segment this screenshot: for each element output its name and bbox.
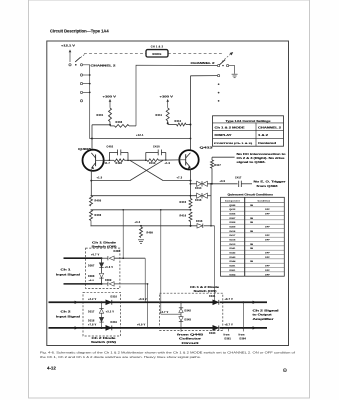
svg-text:No E. O. Trigger: No E. O. Trigger [254, 181, 286, 184]
svg-text:D343: D343 [185, 318, 192, 321]
svg-text:CHANNEL 2: CHANNEL 2 [91, 63, 117, 67]
svg-text:D416: D416 [196, 220, 203, 223]
svg-text:+8.7 V: +8.7 V [225, 325, 234, 327]
svg-text:D413: D413 [229, 243, 236, 246]
svg-text:from Q493: from Q493 [257, 185, 279, 188]
svg-text:D361: D361 [229, 270, 236, 272]
svg-text:R405: R405 [95, 200, 102, 203]
svg-text:D307: D307 [229, 218, 236, 220]
svg-text:Ch 2: Ch 2 [61, 311, 72, 314]
svg-text:+3.2 V: +3.2 V [106, 311, 115, 313]
svg-text:D309: D309 [105, 280, 112, 282]
svg-text:Type 1A4 Control Settings: Type 1A4 Control Settings [226, 120, 272, 123]
svg-text:D306: D306 [229, 214, 236, 216]
svg-text:+0.9 V: +0.9 V [137, 325, 146, 327]
svg-text:D344: D344 [229, 260, 236, 263]
svg-text:Ch 2 Diode: Ch 2 Diode [92, 337, 117, 340]
svg-text:R408: R408 [116, 121, 123, 124]
svg-text:D318: D318 [88, 320, 95, 322]
svg-text:Condition: Condition [258, 199, 271, 202]
svg-text:+8.7 V: +8.7 V [225, 299, 234, 301]
svg-text:R413: R413 [149, 162, 156, 165]
svg-text:+0.6: +0.6 [89, 280, 95, 282]
svg-text:D417: D417 [229, 234, 236, 237]
svg-text:+4.7 V: +4.7 V [160, 311, 169, 314]
svg-text:R416: R416 [180, 215, 187, 218]
svg-text:+1.9: +1.9 [165, 163, 171, 165]
svg-text:R401: R401 [97, 114, 104, 117]
svg-text:OFF: OFF [265, 240, 270, 242]
svg-text:OFF: OFF [265, 274, 270, 276]
svg-text:D416: D416 [229, 230, 236, 233]
svg-text:R411: R411 [156, 114, 163, 117]
svg-text:Q965: Q965 [229, 205, 236, 207]
svg-text:D342: D342 [185, 310, 192, 313]
svg-text:Switch (ON): Switch (ON) [91, 341, 116, 344]
svg-text:1 & 2: 1 & 2 [258, 135, 269, 137]
svg-text:ON: ON [250, 244, 254, 246]
svg-text:OFF: OFF [265, 214, 270, 216]
svg-text:R417: R417 [214, 164, 221, 167]
svg-text:+1.5: +1.5 [97, 177, 103, 180]
svg-text:ON: ON [250, 248, 254, 250]
svg-text:CHANNEL 2: CHANNEL 2 [191, 61, 216, 65]
svg-text:from: from [224, 335, 230, 337]
svg-text:R409: R409 [116, 162, 123, 165]
svg-text:C410: C410 [153, 146, 160, 149]
svg-text:D343: D343 [229, 256, 236, 259]
svg-text:OFF: OFF [265, 270, 270, 272]
svg-text:Centered: Centered [258, 142, 277, 145]
svg-text:Q412: Q412 [229, 208, 236, 211]
svg-text:+0.7 V: +0.7 V [91, 255, 100, 257]
svg-text:Collector: Collector [179, 338, 201, 341]
svg-text:the Ch 1, Ch 2 and Ch 1 & 2 di: the Ch 1, Ch 2 and Ch 1 & 2 diode switch… [40, 356, 202, 359]
svg-text:R409: R409 [147, 232, 154, 235]
svg-text:D491: D491 [229, 265, 236, 268]
svg-text:OFF: OFF [265, 235, 270, 237]
svg-text:D364: D364 [229, 273, 236, 276]
svg-text:R415: R415 [180, 201, 187, 204]
svg-text:OFF: OFF [265, 209, 270, 211]
svg-text:D415: D415 [195, 199, 202, 202]
svg-text:+11.7: +11.7 [103, 163, 111, 165]
svg-text:D414: D414 [195, 187, 202, 190]
svg-text:OFF: OFF [265, 266, 270, 268]
svg-text:4-12: 4-12 [47, 366, 56, 371]
svg-text:POSITION (Ch 1 & 2): POSITION (Ch 1 & 2) [214, 143, 253, 145]
svg-text:Circuit Description—Type 1A4: Circuit Description—Type 1A4 [50, 29, 109, 34]
svg-text:signal to Q493.: signal to Q493. [237, 161, 267, 164]
svg-text:Ch 1: Ch 1 [61, 269, 72, 272]
svg-text:D316: D316 [111, 297, 118, 299]
svg-text:D341: D341 [229, 247, 236, 250]
svg-text:C417: C417 [235, 176, 242, 179]
svg-text:Q413: Q413 [200, 146, 214, 150]
svg-text:from: from [239, 335, 245, 337]
svg-text:ON: ON [250, 218, 254, 220]
svg-text:Quiescent Circuit Conditions: Quiescent Circuit Conditions [228, 193, 274, 196]
svg-text:OFF: OFF [265, 253, 270, 255]
svg-text:OFF: OFF [265, 257, 270, 259]
svg-text:Ch 1 & 2 MODE: Ch 1 & 2 MODE [215, 127, 246, 129]
svg-text:Component: Component [225, 199, 240, 202]
svg-text:+2.2 V: +2.2 V [88, 299, 97, 301]
svg-text:R406: R406 [95, 214, 102, 217]
svg-text:+3.9: +3.9 [220, 181, 226, 183]
svg-text:Ch 2 Signal: Ch 2 Signal [253, 309, 280, 312]
svg-text:Amplifier: Amplifier [253, 318, 274, 321]
svg-text:+100 V: +100 V [160, 95, 174, 99]
svg-text:D342: D342 [229, 252, 236, 255]
svg-text:D364: D364 [240, 338, 247, 341]
svg-text:OFF: OFF [265, 227, 270, 229]
svg-text:+0.9 V: +0.9 V [139, 299, 148, 301]
svg-text:R412: R412 [175, 120, 182, 123]
svg-text:Switch (ON): Switch (ON) [194, 290, 217, 293]
svg-text:Input Signal: Input Signal [56, 316, 80, 319]
svg-text:D317: D317 [88, 312, 95, 314]
svg-text:D308: D308 [88, 276, 95, 278]
svg-text:D418: D418 [229, 239, 236, 242]
svg-text:No DC interconnection to: No DC interconnection to [237, 153, 287, 156]
svg-text:DISPLAY: DISPLAY [215, 134, 233, 137]
svg-text:MODE: MODE [152, 52, 161, 56]
svg-text:D344: D344 [209, 332, 216, 335]
svg-text:ON: ON [250, 231, 254, 233]
svg-text:CHANNEL 2: CHANNEL 2 [258, 126, 282, 129]
svg-text:ON: ON [250, 205, 254, 207]
svg-text:D319: D319 [111, 322, 118, 324]
svg-text:+5.6 V: +5.6 V [105, 267, 114, 269]
svg-text:ON: ON [250, 261, 254, 263]
svg-text:Circuit: Circuit [182, 342, 199, 345]
svg-text:D308: D308 [229, 222, 236, 224]
svg-text:ON: ON [250, 222, 254, 224]
svg-text:+7.8 V: +7.8 V [88, 325, 97, 327]
svg-text:D409: D409 [229, 226, 236, 229]
svg-text:Ch 2 & 4 (Right). No drive: Ch 2 & 4 (Right). No drive [237, 157, 286, 160]
svg-text:+12.1 V: +12.1 V [61, 43, 75, 47]
svg-text:D341: D341 [209, 295, 216, 298]
svg-text:from Q445: from Q445 [177, 334, 204, 337]
svg-text:Ch 1 & 2 Diode: Ch 1 & 2 Diode [190, 286, 220, 289]
svg-text:C402: C402 [107, 146, 114, 149]
svg-text:D307: D307 [88, 265, 95, 267]
svg-text:Ch 1 Diode: Ch 1 Diode [92, 241, 117, 244]
svg-text:+100 V: +100 V [103, 95, 117, 99]
svg-text:+12.1: +12.1 [136, 134, 144, 137]
svg-text:+4.2: +4.2 [135, 221, 141, 224]
svg-text:Fig. 4-6. Schematic diagram of: Fig. 4-6. Schematic diagram of the Ch 1 … [40, 352, 296, 355]
svg-text:Input Signal: Input Signal [56, 274, 80, 277]
svg-text:to Output: to Output [253, 314, 272, 317]
svg-text:+7.3: +7.3 [177, 177, 183, 180]
svg-text:Q403: Q403 [78, 147, 92, 151]
svg-text:CH 1 & 2: CH 1 & 2 [151, 46, 164, 49]
svg-text:D306: D306 [114, 251, 121, 253]
svg-text:D361: D361 [225, 339, 232, 341]
